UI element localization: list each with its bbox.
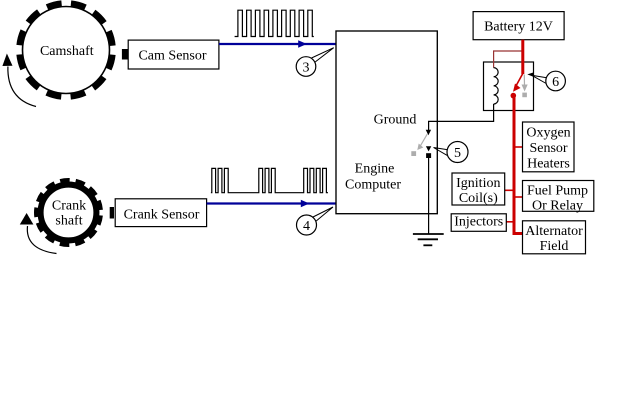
node 4 callout xyxy=(297,207,334,235)
engine computer box xyxy=(336,31,437,214)
cam sensor tip xyxy=(122,49,128,60)
stub to fuel pump (red) xyxy=(514,196,523,198)
stub to oxygen sensor heaters (red) xyxy=(514,146,523,148)
svg-text:6: 6 xyxy=(552,75,559,90)
svg-text:4: 4 xyxy=(303,219,310,234)
alternator field label xyxy=(525,224,583,254)
injectors box xyxy=(451,214,506,232)
battery box xyxy=(473,12,564,40)
crankshaft wheel xyxy=(37,181,101,245)
oxygen sensor heaters label xyxy=(526,126,570,172)
wire battery to relay switch (red) xyxy=(521,40,524,74)
wire coil bottom to ground node xyxy=(429,104,494,132)
camshaft rotation arrow xyxy=(2,54,36,107)
cam signal pulse train xyxy=(235,10,314,36)
switch 5 contact (black) xyxy=(426,146,431,158)
wire cam sensor to engine computer (blue) xyxy=(219,43,336,45)
crankshaft label xyxy=(52,199,86,229)
svg-text:Or Relay: Or Relay xyxy=(532,198,583,213)
crank sensor tip xyxy=(110,207,114,219)
ground symbol xyxy=(413,234,444,245)
svg-text:Battery 12V: Battery 12V xyxy=(484,20,553,35)
alternator field box xyxy=(523,221,586,254)
svg-text:Ignition: Ignition xyxy=(456,176,500,191)
svg-text:Alternator: Alternator xyxy=(525,224,583,239)
svg-text:Field: Field xyxy=(540,239,569,254)
svg-text:3: 3 xyxy=(303,60,310,75)
svg-text:5: 5 xyxy=(454,146,461,161)
crank sensor box xyxy=(115,199,206,227)
svg-text:Heaters: Heaters xyxy=(527,156,570,171)
ignition coils label xyxy=(456,176,500,206)
crankshaft rotation arrow xyxy=(20,213,57,254)
ground wire with switch 5 xyxy=(428,158,430,234)
relay switch blade (red, closed) xyxy=(511,74,523,99)
cam wire arrowhead xyxy=(298,40,307,47)
stub from injectors (red) xyxy=(506,221,513,223)
svg-text:Engine: Engine xyxy=(355,161,395,176)
relay coil feed wire (dark red) xyxy=(494,51,522,68)
svg-text:Injectors: Injectors xyxy=(454,215,503,230)
relay box xyxy=(484,62,534,111)
node 3 callout xyxy=(296,48,334,77)
svg-text:Computer: Computer xyxy=(345,178,401,193)
ignition coils box xyxy=(452,173,505,205)
camshaft wheel xyxy=(19,3,113,97)
main power wire (red) xyxy=(514,96,523,234)
svg-text:Sensor: Sensor xyxy=(529,141,567,156)
fuel pump box xyxy=(523,181,594,212)
node 6 callout xyxy=(527,71,565,91)
crank signal pulse train xyxy=(211,168,328,192)
crank wire arrowhead xyxy=(301,200,310,207)
svg-text:Fuel Pump: Fuel Pump xyxy=(527,183,588,198)
svg-text:shaft: shaft xyxy=(55,214,82,229)
svg-text:Ground: Ground xyxy=(374,113,417,128)
relay coil L1 xyxy=(494,68,499,104)
engine computer label xyxy=(345,161,401,192)
svg-text:Oxygen: Oxygen xyxy=(526,126,570,141)
node 5 callout xyxy=(434,142,469,163)
svg-text:Crank Sensor: Crank Sensor xyxy=(124,207,200,222)
oxygen sensor heaters box xyxy=(523,122,575,172)
cam sensor box xyxy=(128,40,219,69)
wire crank sensor to engine computer (blue) xyxy=(207,202,336,204)
relay switch alternate position (gray) xyxy=(522,75,528,98)
svg-text:Crank: Crank xyxy=(52,199,86,214)
switch 5 alternate position (gray) xyxy=(411,134,427,156)
svg-text:Cam Sensor: Cam Sensor xyxy=(138,49,206,64)
svg-text:Coil(s): Coil(s) xyxy=(459,191,498,206)
switch 5 blade arrowhead (black) xyxy=(426,130,431,135)
svg-text:Camshaft: Camshaft xyxy=(40,44,94,59)
stub from ignition coils (red) xyxy=(505,189,513,191)
fuel pump label xyxy=(527,183,588,213)
